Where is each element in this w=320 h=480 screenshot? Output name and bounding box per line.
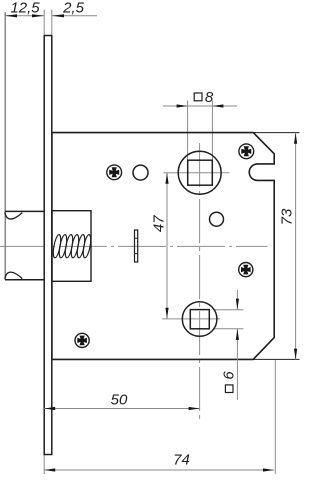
top follower square hole: [188, 160, 213, 185]
body right extension line bottom: [274, 360, 276, 474]
square 6 extension lines: [213, 309, 244, 311]
dimension 6: [221, 290, 240, 400]
svg-text:74: 74: [173, 452, 190, 469]
faceplate extension line bottom: [43, 455, 45, 475]
dimension 74: [44, 452, 274, 472]
centerline vertical through followers: [199, 143, 201, 420]
centerline horizontal bottom follower: [162, 318, 220, 320]
dimension square 8: [163, 89, 237, 108]
slot plate: [135, 230, 138, 262]
svg-text:12,5: 12,5: [10, 0, 40, 17]
screw S2: [239, 144, 254, 159]
latch bevel arc top: [5, 212, 23, 219]
faceplate: [44, 36, 52, 455]
screw S4: [75, 333, 89, 347]
top follower circle: [178, 151, 221, 194]
centerline horizontal top follower: [164, 172, 230, 174]
bottom edge extension line right: [253, 358, 299, 360]
bottom follower square hole: [190, 310, 209, 329]
wire latch tip extension line (left vertical): [4, 12, 6, 280]
spring: [52, 235, 92, 258]
latch tail box: [52, 211, 91, 282]
svg-text:8: 8: [205, 89, 214, 106]
bottom follower circle: [182, 302, 217, 337]
lock body outline: [52, 133, 274, 360]
dimension 12,5: [5, 0, 44, 17]
latch bolt head: [5, 210, 44, 212]
svg-text:6: 6: [221, 371, 238, 380]
dimension 47: [151, 173, 169, 319]
latch bevel arc bottom: [5, 272, 23, 279]
top edge extension line right: [253, 132, 299, 134]
centerline horizontal latch axis: [0, 245, 268, 247]
dimension 50: [44, 392, 199, 411]
screw S3: [239, 263, 253, 277]
svg-text:47: 47: [151, 215, 168, 232]
screw S1: [107, 165, 122, 180]
plain circle hole A: [133, 165, 148, 180]
plain circle hole B: [210, 212, 224, 226]
svg-text:2,5: 2,5: [62, 0, 85, 17]
faceplate extension lines top: [43, 10, 45, 36]
square 8 extension lines: [187, 101, 189, 161]
svg-text:73: 73: [279, 208, 296, 225]
svg-text:50: 50: [111, 392, 128, 409]
dimension 73: [279, 133, 298, 360]
dimension 2,5: [52, 0, 97, 17]
